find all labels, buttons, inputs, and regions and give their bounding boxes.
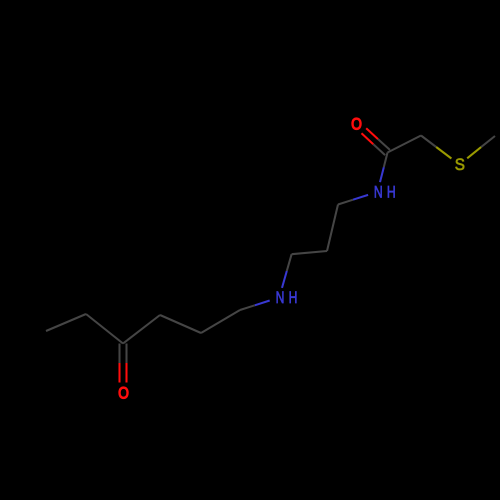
bond Cb-C4	[123, 315, 160, 344]
bond C1-N1	[380, 153, 388, 183]
atom label O (O2)	[118, 385, 129, 403]
svg-text:H: H	[387, 183, 396, 201]
bond C3-N2	[282, 254, 292, 288]
bond C1-CH2a	[388, 136, 422, 153]
bond N1-C2	[338, 195, 368, 205]
bond CH2d-Ca	[201, 310, 240, 333]
bond CH2a-S	[421, 136, 451, 159]
atom label NH (N1)	[374, 183, 396, 201]
atom label S (S)	[455, 156, 465, 174]
bond Cc-CH3e	[46, 314, 86, 331]
svg-text:S: S	[455, 156, 465, 174]
bond C2-Cx	[327, 205, 338, 252]
bond O1=C1	[362, 128, 390, 155]
bond S-CH3b	[467, 136, 495, 158]
bond Cx-C3	[292, 251, 327, 254]
svg-text:N: N	[374, 183, 383, 201]
svg-text:O: O	[118, 385, 129, 403]
atom label O (O1)	[351, 115, 362, 133]
bond Ca-Cb	[160, 315, 201, 333]
bond C4=O2	[120, 344, 127, 383]
svg-text:H: H	[289, 289, 298, 307]
atom label NH (N2)	[276, 289, 298, 307]
bond N2-CH2d	[240, 301, 270, 311]
svg-text:O: O	[351, 115, 362, 133]
bond C4-Cc	[86, 314, 123, 344]
svg-text:N: N	[276, 289, 285, 307]
